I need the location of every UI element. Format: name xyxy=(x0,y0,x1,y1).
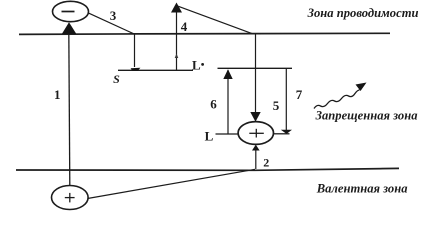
S level line xyxy=(118,69,193,71)
svg-text:3: 3 xyxy=(110,8,117,23)
slanted line 2 (bottom hole to valence band) xyxy=(88,169,256,198)
valence band line xyxy=(16,168,399,170)
plus sign middle xyxy=(249,132,263,134)
svg-text:7: 7 xyxy=(296,87,303,102)
L level line (left of hole circle) xyxy=(216,133,239,135)
svg-text:Запрещенная зона: Запрещенная зона xyxy=(315,108,418,122)
hole circle (plus) middle xyxy=(238,122,273,145)
L* superscript dot xyxy=(201,63,204,66)
svg-text:6: 6 xyxy=(210,97,217,112)
small down arrowhead on S level xyxy=(131,68,141,71)
wire valence band to hole circle xyxy=(255,146,257,169)
svg-text:Валентная зона: Валентная зона xyxy=(316,182,408,196)
arrow 4 line (S level up past conduction band) xyxy=(176,6,178,70)
arrow 5 head (down) xyxy=(250,112,260,122)
svg-text:4: 4 xyxy=(181,19,188,34)
squiggly arrowhead xyxy=(356,83,367,92)
svg-text:2: 2 xyxy=(263,156,269,170)
svg-text:5: 5 xyxy=(273,98,280,113)
line 7 (L* level down) xyxy=(285,68,287,130)
arrow 4 head xyxy=(171,3,182,13)
arrow 6 head (up) xyxy=(223,69,232,79)
line 5 (conduction band down to hole circle) xyxy=(255,34,257,119)
hole circle (plus) bottom-left xyxy=(52,186,89,210)
conduction band line xyxy=(19,33,390,34)
arrow 1 line (valence to conduction) xyxy=(69,30,70,185)
svg-text:1: 1 xyxy=(54,87,61,102)
line 6 (L* level down to L level) xyxy=(227,70,229,134)
electron circle (minus) top-left xyxy=(53,1,89,21)
svg-text:Зона проводимости: Зона проводимости xyxy=(307,6,419,20)
minus sign xyxy=(62,11,75,13)
svg-text:L: L xyxy=(205,129,214,144)
svg-text:L: L xyxy=(192,58,201,73)
small up arrowhead below circle xyxy=(252,145,260,151)
slanted line from arrow-4 apex to conduction band xyxy=(178,6,252,33)
line 3 (from electron circle to conduction band) xyxy=(88,13,134,34)
arrow 1 head xyxy=(62,22,77,34)
arrow 7 head (down) xyxy=(281,130,292,134)
squiggly arrow (band gap) xyxy=(314,90,360,109)
L* level line (right segment) xyxy=(218,67,293,69)
small tick on arrow 4 line xyxy=(175,54,179,59)
svg-text:S: S xyxy=(113,72,120,86)
wire conduction band to S level xyxy=(134,34,136,67)
L level line (right of hole circle) xyxy=(274,133,290,135)
plus sign bottom-left xyxy=(65,197,75,199)
